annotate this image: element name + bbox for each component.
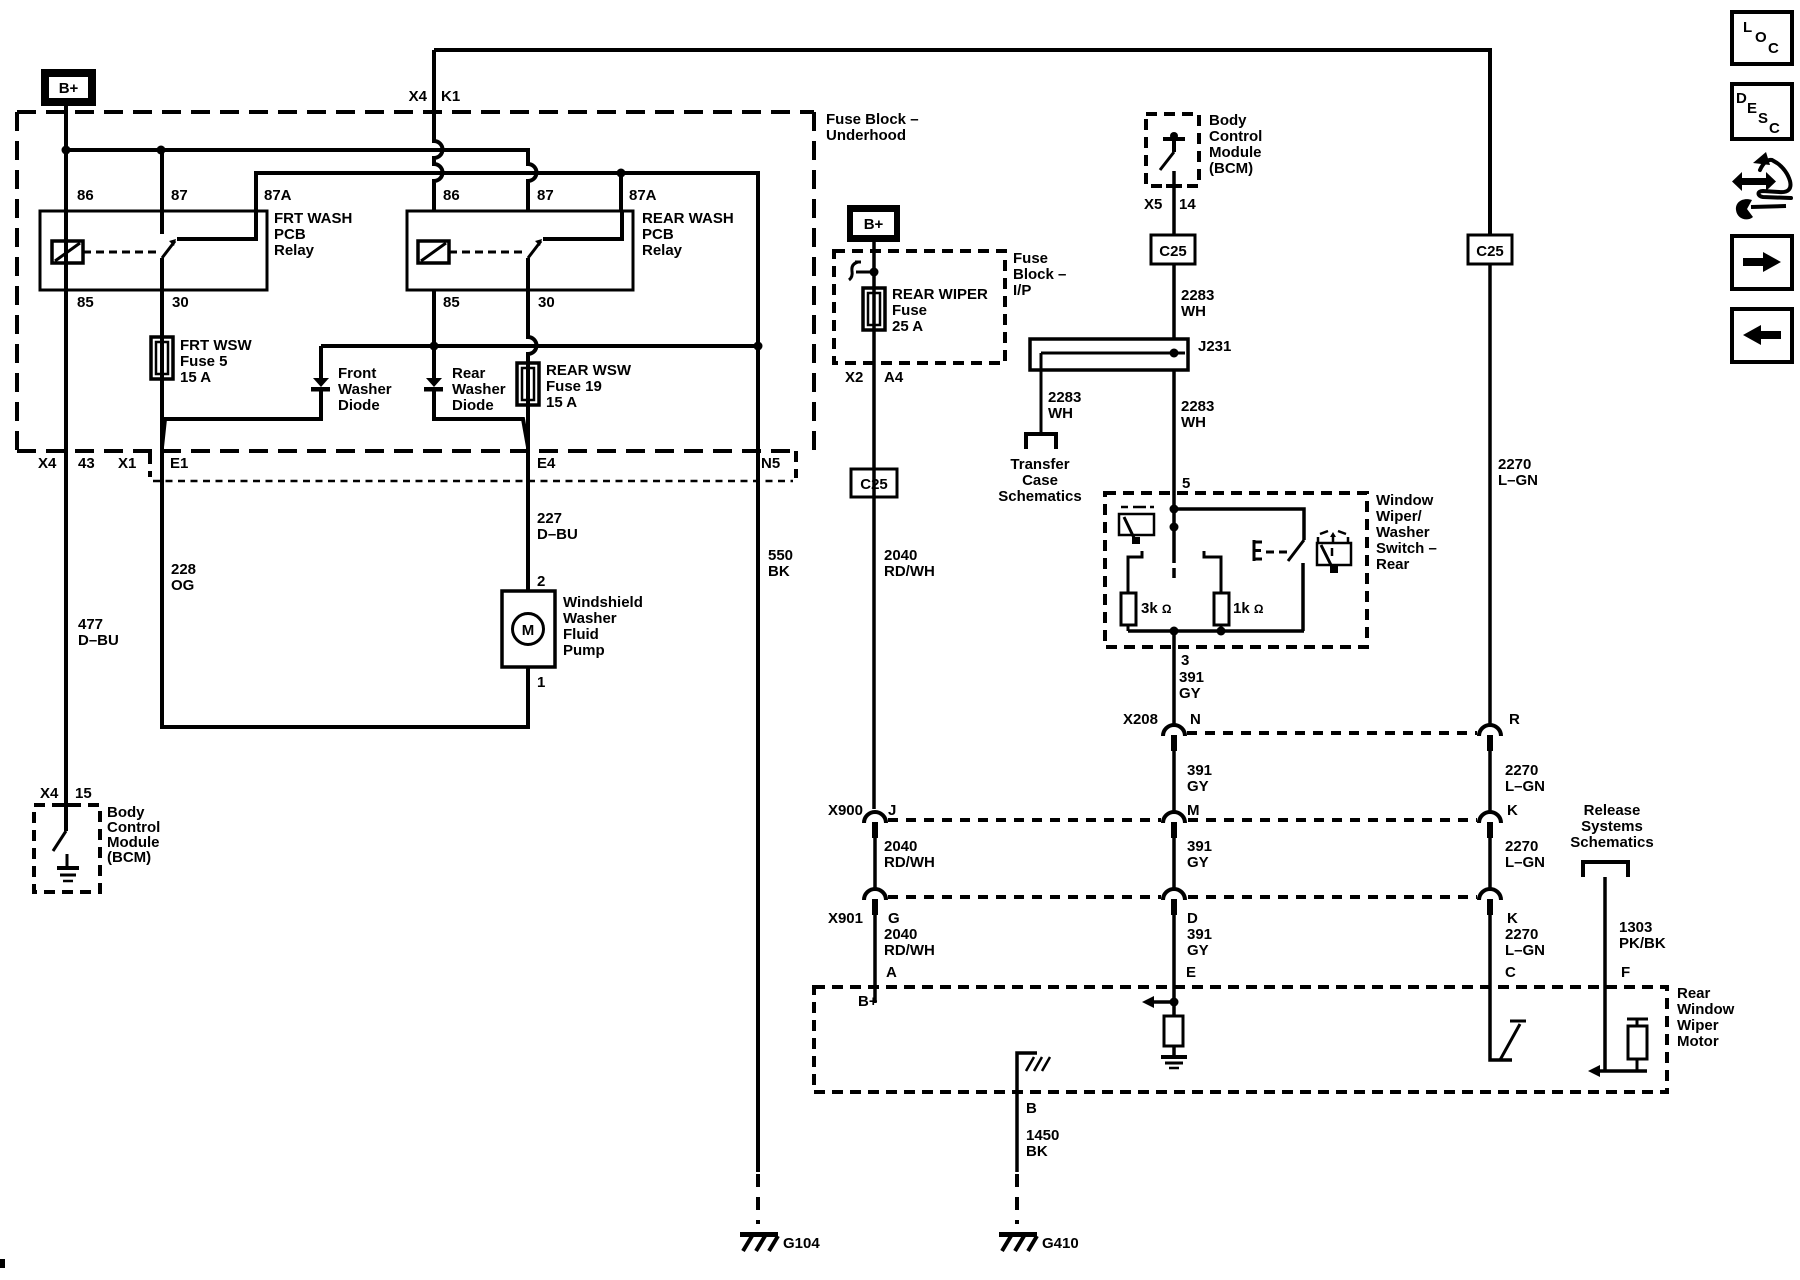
svg-text:87A: 87A [264,187,292,204]
fuse F5 label [180,337,252,386]
icon box arrow right [1732,236,1792,289]
svg-text:Washer: Washer [1376,524,1430,541]
wire label 2040 RD/WH (G-A) [884,926,935,959]
svg-text:C25: C25 [1159,243,1187,260]
fuse F19 label [546,362,632,411]
svg-text:RD/WH: RD/WH [884,563,935,580]
svg-text:Systems: Systems [1581,818,1643,835]
svg-text:C25: C25 [860,476,888,493]
svg-text:M: M [1187,802,1200,819]
relay2 87A internal wire [543,211,622,239]
svg-text:Window: Window [1677,1001,1735,1018]
svg-text:Block –: Block – [1013,266,1066,283]
connector N5 separator dash [794,451,798,478]
wire label 1450 BK [1026,1127,1059,1160]
svg-text:87: 87 [537,187,554,204]
BCM top pin tick [1166,184,1182,188]
svg-text:M: M [522,622,535,639]
connector row X900 dashed line [888,818,1477,822]
svg-text:2283: 2283 [1181,398,1214,415]
svg-text:2040: 2040 [884,838,917,855]
motor C branch park switch [1490,987,1526,1060]
svg-text:J231: J231 [1198,338,1231,355]
svg-text:477: 477 [78,616,103,633]
page speck [0,1259,5,1268]
wire label 2283 WH (branch) [1048,389,1081,422]
wire 550 BK down to G104 [756,346,760,1172]
label X4 43 (left battery wire pins) [38,455,95,472]
wire label 228 OG [171,561,196,594]
off-page bracket transfer case [1026,434,1056,449]
svg-text:B+: B+ [858,993,878,1010]
wash branch wire to contact [1174,509,1304,540]
svg-text:X4: X4 [40,785,59,802]
svg-text:Rear: Rear [1376,556,1410,573]
resistor 3k ohm branch [1121,551,1142,631]
svg-text:Rear: Rear [452,365,486,382]
svg-text:2270: 2270 [1505,762,1538,779]
fuse REAR WIPER label [892,286,988,335]
label X900 J [828,802,896,819]
label X901 G [828,910,900,927]
svg-text:85: 85 [443,294,460,311]
wire relay1 87 terminal [160,150,164,234]
connector row X208 dashed line [1187,731,1477,735]
svg-text:S: S [1758,110,1768,127]
relay2 coil [418,241,449,263]
svg-text:Relay: Relay [274,242,315,259]
svg-text:391: 391 [1187,838,1212,855]
svg-text:K: K [1507,802,1518,819]
connector X900 pin J [864,812,886,889]
svg-text:Release: Release [1584,802,1641,819]
fuse block underhood dashed box [17,112,814,451]
BCM top label [1209,112,1262,177]
connector X901 pin K2 [1479,889,1501,987]
motor M windshield washer fluid pump [502,591,555,667]
svg-text:N5: N5 [761,455,780,472]
wire 550 BK dashed tail [756,1174,760,1224]
wire label 2270 L-GN (K-K) [1505,838,1545,871]
svg-text:O: O [1755,29,1767,46]
release systems schematics label [1570,802,1653,851]
power symbol B+ (I/P feed) [847,205,900,242]
diode D2 rear washer [424,346,528,447]
svg-text:C: C [1768,40,1779,57]
module BCM (top) dashed box [1146,114,1199,186]
svg-text:(BCM): (BCM) [107,849,151,866]
svg-text:B+: B+ [59,80,79,97]
motor E branch arrow and resistor to ground [1142,996,1187,1068]
svg-text:Window: Window [1376,492,1434,509]
connector C25 (middle) [1151,235,1195,264]
svg-text:Washer: Washer [452,381,506,398]
fuse F5 FRT WSW body [151,290,173,379]
svg-text:BK: BK [768,563,790,580]
svg-text:Wiper: Wiper [1677,1017,1719,1034]
wire label 477 D-BU [78,616,119,649]
wire relay1 87A to 550 BK junction (y173) [256,173,758,346]
svg-text:Module: Module [1209,144,1262,161]
connector E row fine dotted line [153,480,793,482]
svg-text:1k Ω: 1k Ω [1233,600,1264,617]
svg-text:1303: 1303 [1619,919,1652,936]
svg-text:WH: WH [1181,414,1206,431]
svg-text:Wiper/: Wiper/ [1376,508,1423,525]
svg-text:2283: 2283 [1181,287,1214,304]
SECTION: fuse block underhood [17,50,1490,1252]
svg-text:3k Ω: 3k Ω [1141,600,1172,617]
node junction diode2/relay2-85 [430,342,439,351]
svg-text:30: 30 [538,294,555,311]
svg-text:227: 227 [537,510,562,527]
svg-text:G104: G104 [783,1235,820,1252]
svg-text:FRT WASH: FRT WASH [274,210,352,227]
fuse block underhood label [826,111,919,144]
relay1 name label [274,210,352,259]
svg-text:25 A: 25 A [892,318,923,335]
wire bus from B+ to relays (y150) [66,150,537,211]
wire switch pin3 down (391 GY) [1172,631,1176,725]
svg-text:G410: G410 [1042,1235,1079,1252]
wire label 391 GY (N-M) [1187,762,1212,795]
transfer case schematics label [998,456,1081,505]
svg-text:Pump: Pump [563,642,605,659]
svg-text:Fuse: Fuse [1013,250,1048,267]
svg-text:F: F [1621,964,1630,981]
svg-text:D–BU: D–BU [537,526,578,543]
wire label 391 GY (D-E) [1187,926,1212,959]
power symbol B+ (underhood feed) [41,69,96,106]
svg-text:G: G [888,910,900,927]
ground G104 [740,1232,820,1252]
motor name label [1677,985,1735,1050]
wire label 391 GY (M-D) [1187,838,1212,871]
svg-text:30: 30 [172,294,189,311]
svg-text:J: J [888,802,896,819]
wire BCM X5-14 to C25 [1172,171,1176,235]
svg-text:15 A: 15 A [180,369,211,386]
svg-text:87: 87 [171,187,188,204]
svg-text:A4: A4 [884,369,904,386]
svg-text:C: C [1769,120,1780,137]
svg-text:L–GN: L–GN [1498,472,1538,489]
wire label 227 D-BU [537,510,578,543]
svg-text:(BCM): (BCM) [1209,160,1253,177]
svg-text:391: 391 [1187,926,1212,943]
svg-text:X901: X901 [828,910,863,927]
connector X208 pin R [1479,725,1501,812]
wire C25 right down (2270 L-GN) [1488,264,1492,725]
wash switch arm [1288,540,1304,561]
svg-text:GY: GY [1187,854,1209,871]
svg-text:Body: Body [1209,112,1247,129]
svg-text:2283: 2283 [1048,389,1081,406]
svg-text:2: 2 [537,573,545,590]
connector X901 pin D [1163,889,1185,1002]
relay2 pin labels [443,187,657,311]
diode D1 label [338,365,392,414]
motor pin labels A E C F [886,964,1630,981]
wash linkage E symbol [1253,540,1287,561]
wire label 2283 WH (above J231) [1181,287,1214,320]
wire fuse19 to pump pin2 (227 D-BU) [526,405,530,591]
switch name label [1376,492,1437,573]
motor pin A stub [873,987,877,1003]
svg-text:1: 1 [537,674,545,691]
svg-text:Rear: Rear [1677,985,1711,1002]
relay K1 FRT WASH PCB Relay box [40,211,267,290]
label X4 K1 (top feed pins) [409,88,461,105]
wiper park icon [1119,507,1154,544]
resistor 1k ohm branch [1204,551,1229,631]
svg-text:X1: X1 [118,455,136,472]
relay1 pin labels [77,187,292,311]
svg-text:3: 3 [1181,652,1189,669]
wire motor B to G410 (1450 BK) [1015,1092,1019,1172]
svg-text:Switch –: Switch – [1376,540,1437,557]
svg-text:228: 228 [171,561,196,578]
svg-text:K1: K1 [441,88,460,105]
svg-text:Control: Control [1209,128,1262,145]
svg-text:Front: Front [338,365,376,382]
node junction 550 BK tap [754,342,763,351]
svg-text:2270: 2270 [1498,456,1531,473]
svg-text:B: B [1026,1100,1037,1117]
wire J231 left branch 2283 WH [1040,353,1043,434]
washer spray icon [1317,531,1351,573]
diode D2 label [452,365,506,414]
connector X208 pin N [1163,725,1185,812]
node junction switch pivot [1170,523,1179,532]
svg-text:GY: GY [1179,685,1201,702]
svg-text:43: 43 [78,455,95,472]
wire label 2270 L-GN (K-C) [1505,926,1545,959]
svg-text:K: K [1507,910,1518,927]
wire label 391 GY (pin3) [1179,669,1204,702]
wire release systems to motor F (1303 PK/BK) [1603,877,1607,987]
wire B+ down to BCM (477 D-BU) [64,106,68,805]
connector X1 separator dash [148,453,152,477]
svg-text:N: N [1190,711,1201,728]
svg-text:2040: 2040 [884,926,917,943]
SECTION: middle [834,112,1437,809]
svg-text:Fuse: Fuse [892,302,927,319]
fuse element hook symbol [849,262,879,280]
icon box arrow left [1732,309,1792,362]
relay1 87A internal wire [177,211,256,239]
motor F branch resistor with arrow [1588,987,1648,1077]
fuse F19 REAR WSW body [517,363,539,405]
wire K1 feed vertical with hops [434,50,443,211]
wire relay2 87A terminal [619,173,623,211]
svg-text:X900: X900 [828,802,863,819]
wire label 1303 PK/BK [1619,919,1666,952]
svg-text:Fuse 19: Fuse 19 [546,378,602,395]
relay2 coil-contact dashed link [449,251,524,254]
svg-text:Windshield: Windshield [563,594,643,611]
icon box LOC [1732,12,1792,64]
svg-text:Fuse 5: Fuse 5 [180,353,228,370]
svg-text:Diode: Diode [338,397,380,414]
svg-text:2270: 2270 [1505,838,1538,855]
wire J231 to switch (2283 WH) [1172,370,1176,563]
svg-text:A: A [886,964,897,981]
icon harness repair [1732,152,1791,219]
svg-text:L–GN: L–GN [1505,942,1545,959]
fuse block I/P label [1013,250,1066,299]
svg-text:2040: 2040 [884,547,917,564]
module BCM (low side) dashed box [34,805,100,892]
svg-text:Schematics: Schematics [1570,834,1653,851]
svg-text:GY: GY [1187,778,1209,795]
svg-text:E4: E4 [537,455,556,472]
BCM low label [107,804,160,866]
node junction at relay1 87 [157,146,166,155]
label X2 A4 [845,369,904,386]
svg-text:WH: WH [1048,405,1073,422]
ground G410 [999,1232,1079,1252]
svg-text:Washer: Washer [563,610,617,627]
svg-text:Diode: Diode [452,397,494,414]
wire label 2040 RD/WH (upper) [884,547,935,580]
svg-text:L: L [1743,19,1752,36]
svg-text:E1: E1 [170,455,188,472]
motor B internal ground [1017,1053,1050,1092]
connector C25 (right) [1468,235,1512,264]
switch center contact stub [1172,568,1176,578]
relay2 name label [642,210,734,259]
svg-text:87A: 87A [629,187,657,204]
rear window wiper motor dashed box [814,987,1667,1092]
svg-text:PK/BK: PK/BK [1619,935,1666,952]
splice pack J231 [1030,339,1188,370]
svg-text:R: R [1509,711,1520,728]
svg-text:BK: BK [1026,1143,1048,1160]
svg-text:Underhood: Underhood [826,127,906,144]
relay1 coil [52,241,83,263]
pump name label [563,594,643,659]
svg-text:Fuse Block –: Fuse Block – [826,111,919,128]
wire label 2040 RD/WH (J-G) [884,838,935,871]
wash contact lower wire [1301,563,1305,631]
svg-text:FRT WSW: FRT WSW [180,337,252,354]
svg-text:OG: OG [171,577,194,594]
svg-text:14: 14 [1179,196,1196,213]
svg-text:15: 15 [75,785,92,802]
label X5 14 [1144,196,1196,213]
wire B+ through rear wiper fuse to C25 (x874) [872,242,876,809]
svg-text:391: 391 [1187,762,1212,779]
svg-text:L–GN: L–GN [1505,854,1545,871]
svg-text:X4: X4 [38,455,57,472]
wire label 2283 WH (below J231) [1181,398,1214,431]
svg-text:86: 86 [443,187,460,204]
connector X900 pin M [1163,812,1185,889]
svg-text:Case: Case [1022,472,1058,489]
svg-text:X5: X5 [1144,196,1162,213]
svg-text:GY: GY [1187,942,1209,959]
svg-text:C25: C25 [1476,243,1504,260]
relay2 switch arm and 30 stub [528,239,542,290]
wire 1450 BK dashed tail [1015,1174,1019,1224]
relay1 switch arm and 30 stub [162,239,176,290]
node junction at B+ bus [62,146,71,155]
wire label 2270 L-GN (upper right) [1498,456,1538,489]
svg-text:E: E [1747,100,1757,117]
node junction relay2 87A [617,169,626,178]
BCM low driver switch to ground [53,805,79,881]
svg-text:Fluid: Fluid [563,626,599,643]
connector row X901 dashed line [888,895,1477,899]
switch bottom bus [1128,629,1304,633]
diode D1 front washer [162,346,330,447]
wire relay2 30 with hop to fuse19 [528,290,537,405]
svg-text:85: 85 [77,294,94,311]
wire label 2270 L-GN (R-K) [1505,762,1545,795]
svg-text:15 A: 15 A [546,394,577,411]
fuse REAR WIPER 25A body [863,288,885,330]
svg-text:550: 550 [768,547,793,564]
svg-text:REAR WSW: REAR WSW [546,362,632,379]
wire top feed to right C25 [434,50,1490,235]
wire 87A bus to diodes (y346) [321,344,758,348]
svg-text:RD/WH: RD/WH [884,942,935,959]
relay K2 REAR WASH PCB Relay box [407,211,633,290]
svg-text:B+: B+ [864,216,884,233]
node junction pin3 [1170,627,1179,636]
label X1 E1 [118,455,188,472]
svg-text:D–BU: D–BU [78,632,119,649]
label X208 N [1123,711,1201,728]
fuse block I/P dashed box [834,251,1005,363]
svg-text:WH: WH [1181,303,1206,320]
wire label 550 BK [768,547,793,580]
svg-text:Washer: Washer [338,381,392,398]
label X4 15 (BCM pins) [40,785,92,802]
svg-text:RD/WH: RD/WH [884,854,935,871]
icon box DESC [1732,84,1792,139]
svg-text:Transfer: Transfer [1010,456,1069,473]
svg-text:PCB: PCB [642,226,674,243]
svg-text:D: D [1187,910,1198,927]
svg-text:5: 5 [1182,475,1190,492]
BCM low pin tick [58,803,74,807]
svg-text:PCB: PCB [274,226,306,243]
connector C25 (left) [851,469,897,497]
off-page bracket release systems [1583,862,1628,877]
connector X901 pin G [864,889,886,987]
svg-text:Schematics: Schematics [998,488,1081,505]
svg-text:C: C [1505,964,1516,981]
wire C25 to J231 [1172,264,1176,339]
wire fuse5 to E1 and pump return 228 OG [162,379,528,727]
connector X900 pin K [1479,812,1501,889]
svg-text:X208: X208 [1123,711,1158,728]
BCM top driver switch [1160,132,1185,170]
node junction 1k leg [1217,627,1226,636]
svg-text:I/P: I/P [1013,282,1031,299]
svg-text:X2: X2 [845,369,863,386]
relay1 coil-contact dashed link [83,251,158,254]
window wiper washer switch dashed box [1105,493,1367,647]
svg-text:E: E [1186,964,1196,981]
svg-text:1450: 1450 [1026,1127,1059,1144]
node junction wash branch [1170,505,1179,514]
svg-text:D: D [1736,90,1747,107]
wire relay2 85 down [432,290,436,346]
svg-text:L–GN: L–GN [1505,778,1545,795]
